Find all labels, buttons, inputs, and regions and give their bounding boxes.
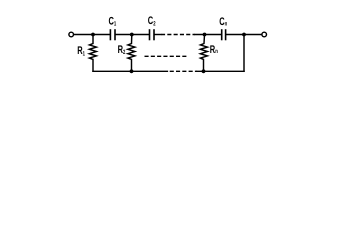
label Cn	[219, 16, 227, 28]
wire C1 to node B	[116, 34, 132, 36]
wire bottom rail left segment	[93, 70, 167, 72]
node E (junction dot, bottom of R2)	[130, 69, 134, 73]
wire dashed section to node C	[195, 34, 221, 36]
wire Cn to node D	[226, 34, 244, 36]
wire node D to output terminal	[244, 34, 261, 36]
resistor Rn	[200, 35, 207, 72]
capacitor Cn	[222, 30, 226, 40]
wire (dashed, middle row continuation)	[145, 55, 187, 57]
svg-text:R2: R2	[118, 44, 126, 56]
node F (junction dot, bottom of Rn)	[202, 69, 206, 73]
svg-text:R1: R1	[77, 45, 85, 57]
label R2	[118, 44, 126, 56]
wire input to node A	[74, 34, 93, 36]
node A (junction dot, top of R1)	[91, 33, 95, 37]
svg-text:C2: C2	[148, 15, 156, 27]
node C (junction dot, top of Rn)	[203, 33, 207, 37]
label C2	[148, 15, 156, 27]
wire (dashed continuation, bottom rail)	[170, 70, 197, 72]
node D (junction dot, top right)	[242, 33, 246, 37]
capacitor C1	[110, 30, 115, 40]
wire node B to C2	[132, 34, 149, 36]
wire node A to C1	[93, 34, 110, 36]
label C1	[109, 15, 117, 27]
label Rn	[210, 44, 218, 56]
wire right vertical (node D to bottom rail)	[243, 35, 245, 72]
wire C2 to dashed section	[155, 34, 161, 36]
resistor R2	[128, 35, 135, 72]
wire (dashed continuation, top rail)	[161, 34, 195, 36]
svg-text:Cn: Cn	[219, 16, 227, 28]
node B (junction dot, top of R2)	[130, 33, 134, 37]
capacitor C2	[150, 30, 155, 40]
label R1	[77, 45, 85, 57]
resistor R1	[89, 35, 96, 72]
input terminal (left, open circle)	[69, 32, 74, 37]
output terminal (right, open circle)	[262, 32, 267, 37]
svg-text:Rn: Rn	[210, 44, 218, 56]
wire bottom rail right segment	[197, 70, 244, 72]
svg-text:C1: C1	[109, 15, 117, 27]
